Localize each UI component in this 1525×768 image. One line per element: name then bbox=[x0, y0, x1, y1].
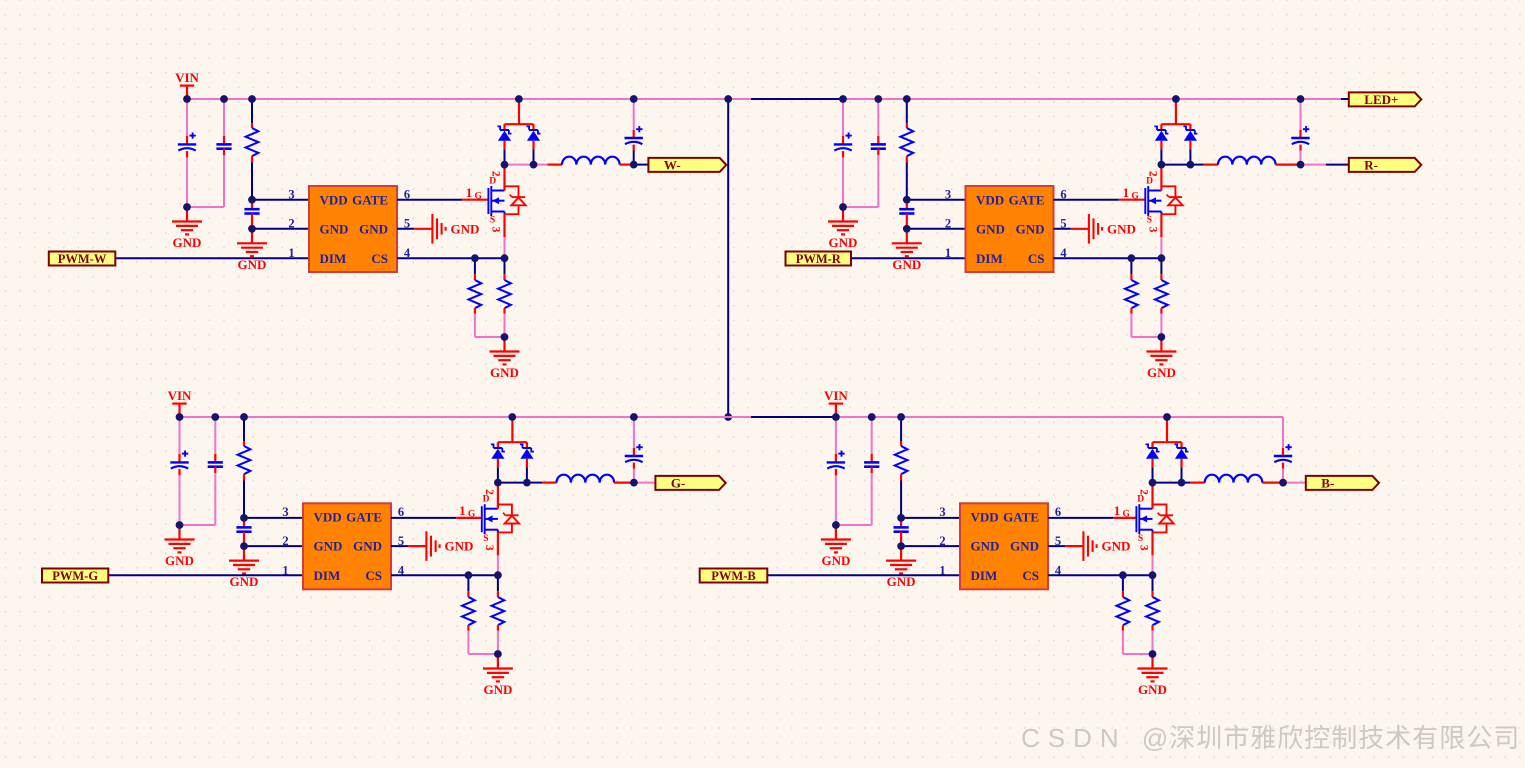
ground GND (B pin 5) bbox=[1083, 531, 1130, 561]
wire: QB source to CS node bbox=[1152, 555, 1154, 575]
wire: R power rail segment 1 bbox=[728, 98, 751, 100]
inductor LG bbox=[557, 475, 615, 483]
wire: RB1 pin stub top bbox=[900, 441, 902, 446]
wire: diode Gb anode to switch node bbox=[526, 459, 528, 468]
wire: pin 5 to ground (B) bbox=[1048, 545, 1065, 547]
wire: CG2 bottom L to ground join bbox=[180, 473, 216, 525]
electrolytic capacitor CW1 bbox=[178, 133, 196, 151]
junction: rail @VIN (B) bbox=[832, 413, 840, 421]
port LED+ bbox=[1349, 92, 1422, 107]
junction: connector at top rail bbox=[724, 95, 732, 103]
junction: sense ground node (B) bbox=[1149, 650, 1157, 658]
wire: inductor LR pin stub right bbox=[1276, 164, 1301, 166]
junction: sense ground node (W) bbox=[501, 333, 509, 341]
svg-text:S: S bbox=[1138, 534, 1143, 544]
svg-text:D: D bbox=[483, 495, 490, 505]
wire: RBs1 pin stub bottom bbox=[1122, 625, 1124, 631]
IC UW LED driver (VDD/GATE/GND/DIM/CS) bbox=[309, 186, 397, 272]
wire: inductor LB pin stub right bbox=[1262, 482, 1283, 484]
wire: RGs1 pin stub bottom bbox=[467, 625, 469, 631]
wire: pin 5 to ground (G) bbox=[391, 545, 408, 547]
port PWM-R bbox=[786, 252, 852, 267]
wire: output cap pin stub top (W) bbox=[633, 130, 635, 138]
junction: rail @diodes (W) bbox=[515, 95, 523, 103]
inductor LB bbox=[1205, 475, 1263, 483]
svg-text:1: 1 bbox=[282, 563, 288, 577]
svg-text:GND: GND bbox=[1101, 539, 1130, 554]
wire: VDD cap pin stub bottom bbox=[251, 214, 253, 229]
wire: RW1 pin stub bottom bbox=[251, 156, 253, 162]
wire: QR gate pin stub bbox=[1119, 199, 1146, 201]
wire: switch node to inductor stub (R) bbox=[1190, 164, 1203, 166]
junction: VDD node (B) bbox=[897, 514, 905, 522]
ground GND (R input caps) bbox=[828, 207, 858, 250]
wire: CB1 pin stub top bbox=[835, 454, 837, 462]
schottky diode DRa bbox=[1154, 126, 1168, 140]
svg-text:1: 1 bbox=[466, 185, 473, 200]
wire: VDD node to pin 3 (W) bbox=[252, 199, 309, 201]
junction: CS node right (W) bbox=[501, 254, 509, 262]
junction: GND pin node (B) bbox=[897, 542, 905, 550]
wire: RWs2 pin stub bottom bbox=[503, 308, 505, 314]
junction: rail @out (R) bbox=[1297, 95, 1305, 103]
wire: pin 6 GATE to QR (R) bbox=[1054, 199, 1119, 201]
wire: switch node bridge (B) bbox=[1153, 482, 1182, 484]
wire: CS to sense resistor RBs2 top bbox=[1152, 575, 1154, 591]
wire: R power rail segment 2 bbox=[751, 98, 843, 100]
transistor QG N-MOSFET body bbox=[482, 504, 498, 534]
svg-text:GND: GND bbox=[1010, 539, 1039, 554]
capacitor CB3 (VDD decoupling) bbox=[894, 527, 909, 531]
UW pin number labels bbox=[288, 188, 411, 261]
svg-text:2: 2 bbox=[282, 534, 288, 548]
wire: RR1 pin stub top bbox=[906, 123, 908, 128]
wire: PWM-B to pin 1 DIM (B) bbox=[767, 574, 960, 576]
svg-text:3: 3 bbox=[945, 188, 951, 202]
junction: rail @diodes (G) bbox=[508, 413, 516, 421]
wire: diode Ba anode to switch node bbox=[1151, 459, 1153, 468]
wire: CR1 pin stub bottom bbox=[842, 151, 844, 157]
junction: output node (W) bbox=[630, 161, 638, 169]
wire: VDD cap pin stub top bbox=[906, 200, 908, 210]
wire: VDD node to pin 3 (G) bbox=[244, 517, 303, 519]
svg-text:2: 2 bbox=[1138, 489, 1150, 495]
junction: VDD node (G) bbox=[240, 514, 248, 522]
svg-text:GATE: GATE bbox=[1009, 192, 1045, 207]
junction: rail @R1 (R) bbox=[903, 95, 911, 103]
wire: rail to input cap CR1 bbox=[842, 99, 844, 136]
wire: CB2 pin stub top bbox=[871, 454, 873, 462]
wire: diode Wb anode navy segment bbox=[533, 149, 535, 164]
wire: output cap pin stub top (R) bbox=[1299, 130, 1301, 138]
ground GND (R pin 5) bbox=[1089, 214, 1136, 244]
wire: rail to input cap CB1 bbox=[835, 417, 837, 454]
svg-text:2: 2 bbox=[288, 217, 294, 231]
wire: output cap pin stub top (G) bbox=[633, 448, 635, 456]
junction: VDD node (W) bbox=[248, 196, 256, 204]
wire: VDD node to pin 3 (R) bbox=[907, 199, 966, 201]
wire: output cap pin stub bottom (G) bbox=[633, 463, 635, 469]
svg-text:DIM: DIM bbox=[320, 251, 347, 266]
wire: CB2 pin stub bottom bbox=[871, 467, 873, 473]
svg-text:DIM: DIM bbox=[314, 568, 341, 583]
svg-text:GND: GND bbox=[1138, 682, 1167, 697]
wire: switch node bridge (W) bbox=[505, 164, 534, 166]
wire: rail to output cap (G) bbox=[633, 417, 635, 448]
wire: output node to port R- seg2 bbox=[1326, 164, 1349, 166]
wire: QW source red stub bbox=[503, 214, 505, 237]
junction: switch node right (R) bbox=[1187, 161, 1195, 169]
schottky diode DWa bbox=[498, 126, 512, 140]
svg-text:VDD: VDD bbox=[976, 192, 1004, 207]
svg-text:3: 3 bbox=[483, 545, 495, 551]
svg-text:2: 2 bbox=[483, 489, 495, 495]
wire: ground node to pin 2 (R) bbox=[907, 228, 966, 230]
wire: RGs2 pin stub top bbox=[497, 591, 499, 597]
wire: diode Rb anode to switch node bbox=[1189, 141, 1191, 150]
svg-text:VDD: VDD bbox=[971, 510, 999, 525]
ground GND (R pin 2) bbox=[892, 229, 922, 272]
junction: connector at bottom rail bbox=[724, 413, 732, 421]
wire: output cap pin stub top (B) bbox=[1282, 448, 1284, 456]
svg-text:1: 1 bbox=[939, 563, 945, 577]
VIN power port (W block) bbox=[175, 70, 199, 99]
wire: diode Ba anode navy segment bbox=[1152, 467, 1154, 482]
wire: sense right leg to ground node (G) bbox=[497, 631, 499, 654]
svg-text:1: 1 bbox=[1123, 185, 1130, 200]
ground GND (B input caps) bbox=[821, 525, 851, 568]
wire: switch node bridge (G) bbox=[498, 482, 527, 484]
svg-text:R-: R- bbox=[1364, 158, 1378, 173]
wire: CR2 bottom L to ground join bbox=[843, 155, 878, 207]
svg-text:6: 6 bbox=[1055, 505, 1061, 519]
UG pin number labels bbox=[282, 505, 405, 578]
junction: rail @R1 (W) bbox=[248, 95, 256, 103]
junction: input caps ground node (B) bbox=[832, 521, 840, 529]
schottky diode DGa bbox=[491, 444, 505, 458]
junction: switch node left (R) bbox=[1158, 161, 1166, 169]
QG pin labels bbox=[459, 489, 495, 551]
body diode of QW bbox=[505, 186, 526, 214]
junction: CS node left (R) bbox=[1128, 254, 1136, 262]
wire: pin 5 to ground (R) bbox=[1054, 228, 1071, 230]
svg-text:PWM-R: PWM-R bbox=[796, 252, 842, 266]
wire: pin 6 GATE to QW (W) bbox=[397, 199, 462, 201]
wire: pin 4 CS to sense resistors (B) bbox=[1048, 574, 1153, 576]
wire: CW1 pin stub top bbox=[186, 136, 188, 144]
svg-text:GND: GND bbox=[359, 221, 388, 236]
wire: diode Wb anode to switch node bbox=[532, 141, 534, 150]
transistor QW N-MOSFET body bbox=[488, 186, 504, 216]
port PWM-B bbox=[700, 569, 768, 584]
junction: input caps ground node (R) bbox=[839, 203, 847, 211]
wire: rail to output cap (R) bbox=[1300, 99, 1302, 130]
junction: rail @C2 (B) bbox=[868, 413, 876, 421]
wire: CG2 pin stub top bbox=[214, 454, 216, 462]
capacitor CR2 bbox=[871, 144, 886, 148]
UR pin number labels bbox=[945, 188, 1068, 261]
wire: VDD cap pin stub top bbox=[243, 518, 245, 528]
wire: RWs2 pin stub top bbox=[503, 274, 505, 280]
wire: CS to sense resistor RRs1 top bbox=[1130, 258, 1132, 274]
wire: RG1 pin stub top bbox=[243, 441, 245, 446]
wire: CB1 pin stub bottom bbox=[835, 469, 837, 475]
svg-text:GATE: GATE bbox=[1003, 510, 1039, 525]
schottky diode DBa bbox=[1146, 444, 1160, 458]
wire: vertical rail connector (top rail to bottom rail) bbox=[727, 99, 729, 417]
capacitor CB2 bbox=[864, 462, 879, 466]
QR pin labels bbox=[1123, 171, 1159, 233]
svg-text:GND: GND bbox=[444, 539, 473, 554]
wire: sense right leg to ground node (R) bbox=[1160, 314, 1162, 337]
port W- bbox=[648, 158, 726, 173]
schottky diode DGb bbox=[520, 444, 534, 458]
inductor LW bbox=[562, 157, 620, 165]
wire: output cap pin stub bottom (B) bbox=[1282, 463, 1284, 469]
wire: output cap to output node (B) bbox=[1282, 469, 1284, 483]
wire: diode Rb anode navy segment bbox=[1189, 149, 1191, 164]
wire: QW source to CS node bbox=[504, 237, 506, 258]
wire: freewheel diode feed from rail (W) bbox=[505, 99, 534, 130]
wire: diode Wa anode navy segment bbox=[504, 149, 506, 164]
wire: rail to resistor RG1 bbox=[243, 417, 245, 441]
ground GND (G pin 2) bbox=[229, 546, 259, 589]
electrolytic capacitor CRout bbox=[1291, 126, 1309, 144]
junction: CS node left (W) bbox=[471, 254, 479, 262]
junction: switch node right (G) bbox=[523, 479, 531, 487]
wire: output node to port G- seg1 bbox=[634, 482, 656, 484]
wire: RRs2 pin stub top bbox=[1160, 274, 1162, 280]
wire: diode Ga anode to switch node bbox=[497, 459, 499, 468]
junction: GND pin node (G) bbox=[240, 542, 248, 550]
wire: pin 5 ground stub (W) bbox=[414, 228, 432, 230]
svg-text:VDD: VDD bbox=[314, 510, 342, 525]
svg-text:G: G bbox=[468, 510, 476, 520]
svg-text:GND: GND bbox=[976, 221, 1005, 236]
wire: output node to port W- seg1 bbox=[634, 164, 649, 166]
svg-text:GND: GND bbox=[1107, 221, 1136, 236]
svg-text:GATE: GATE bbox=[352, 192, 388, 207]
wire: CS to sense resistor RRs2 top bbox=[1160, 258, 1162, 274]
wire: switch node to inductor stub (G) bbox=[527, 482, 542, 484]
wire: RGs2 pin stub bottom bbox=[497, 625, 499, 631]
port G- bbox=[655, 476, 725, 491]
svg-text:GND: GND bbox=[490, 365, 519, 380]
wire: rail to resistor RB1 bbox=[900, 417, 902, 441]
wire: pin 5 ground stub (G) bbox=[408, 545, 426, 547]
resistor RB1 (VDD feed) bbox=[895, 446, 908, 474]
svg-text:1: 1 bbox=[1114, 503, 1121, 518]
svg-text:3: 3 bbox=[1138, 545, 1150, 551]
svg-text:CS: CS bbox=[1022, 568, 1039, 583]
junction: output node (G) bbox=[630, 479, 638, 487]
body diode of QG bbox=[498, 505, 519, 533]
transistor QR N-MOSFET body bbox=[1145, 186, 1161, 216]
wire: PWM-G to pin 1 DIM (G) bbox=[108, 574, 303, 576]
svg-text:VDD: VDD bbox=[320, 192, 348, 207]
IC UB LED driver (VDD/GATE/GND/DIM/CS) bbox=[960, 503, 1048, 589]
wire: rail to output cap (W) bbox=[633, 99, 635, 130]
wire: CG1 bottom to ground join bbox=[179, 475, 181, 525]
junction: rail @VIN (G) bbox=[176, 413, 184, 421]
ground GND (W input caps) bbox=[172, 207, 202, 250]
svg-text:DIM: DIM bbox=[976, 251, 1003, 266]
wire: RR1 to VDD node bbox=[906, 163, 908, 200]
electrolytic capacitor CBout bbox=[1274, 444, 1292, 462]
wire: QB gate pin stub bbox=[1113, 517, 1136, 519]
wire: RWs1 pin stub top bbox=[474, 274, 476, 280]
svg-text:G: G bbox=[1131, 191, 1139, 201]
wire: inductor LG pin stub left bbox=[542, 482, 556, 484]
capacitor CG3 (VDD decoupling) bbox=[236, 527, 251, 531]
wire: diode Ra anode navy segment bbox=[1160, 149, 1162, 164]
wire: CS to sense resistor RBs1 top bbox=[1122, 575, 1124, 591]
wire: PWM-R to pin 1 DIM (R) bbox=[851, 257, 966, 259]
electrolytic capacitor CG1 bbox=[170, 451, 188, 469]
electrolytic capacitor CGout bbox=[625, 444, 643, 462]
wire: rail to input cap CW1 bbox=[186, 99, 188, 136]
junction: switch node right (W) bbox=[530, 161, 538, 169]
wire: diode Ra anode to switch node bbox=[1160, 141, 1162, 150]
ground GND (G pin 5) bbox=[426, 531, 473, 561]
wire: rail to input cap CG1 bbox=[179, 417, 181, 454]
wire: CR2 pin stub bottom bbox=[877, 149, 879, 155]
svg-text:S: S bbox=[483, 534, 488, 544]
wire: RWs1 pin stub bottom bbox=[474, 308, 476, 314]
wire: VDD cap pin stub top bbox=[251, 200, 253, 210]
wire: CS to sense resistor RGs1 top bbox=[467, 575, 469, 591]
svg-text:PWM-B: PWM-B bbox=[711, 569, 755, 583]
wire: rail to output cap (B) bbox=[1282, 417, 1284, 448]
port R- bbox=[1349, 158, 1422, 173]
svg-text:PWM-G: PWM-G bbox=[52, 569, 98, 583]
wire: B power rail segment 1 bbox=[836, 416, 1283, 418]
wire: CW1 pin stub bottom bbox=[186, 151, 188, 157]
junction: rail @VIN (W) bbox=[183, 95, 191, 103]
wire: QG source to CS node bbox=[497, 555, 499, 575]
sense resistor RRs1 bbox=[1125, 280, 1138, 308]
wire: CW2 bottom L to ground join bbox=[187, 155, 224, 207]
svg-text:S: S bbox=[1147, 216, 1152, 226]
wire: inductor LW pin stub right bbox=[620, 164, 634, 166]
svg-text:G: G bbox=[1123, 510, 1131, 520]
wire: ground node to pin 2 (W) bbox=[252, 228, 309, 230]
wire: CW2 pin stub top bbox=[223, 136, 225, 144]
sense resistor RBs2 bbox=[1146, 597, 1159, 625]
wire: QW gate pin stub bbox=[462, 199, 488, 201]
wire: QG drain to switch node bbox=[497, 483, 499, 509]
svg-text:3: 3 bbox=[288, 188, 294, 202]
capacitor CW3 (VDD decoupling) bbox=[244, 209, 259, 213]
svg-text:VIN: VIN bbox=[168, 388, 192, 403]
wire: W power rail segment 1 bbox=[187, 98, 728, 100]
svg-text:GND: GND bbox=[314, 539, 343, 554]
svg-text:CS: CS bbox=[365, 568, 382, 583]
junction: output node (R) bbox=[1297, 161, 1305, 169]
junction: CS node left (G) bbox=[465, 571, 473, 579]
body diode of QB bbox=[1153, 505, 1174, 533]
sense resistor RWs1 bbox=[469, 280, 482, 308]
svg-text:6: 6 bbox=[398, 505, 404, 519]
wire: QG source red stub bbox=[497, 532, 499, 555]
wire: sense left leg to ground node (G) bbox=[468, 631, 498, 654]
wire: output cap to output node (G) bbox=[633, 469, 635, 483]
wire: CS to sense resistor RGs2 top bbox=[497, 575, 499, 591]
wire: diode Ga anode navy segment bbox=[497, 467, 499, 482]
wire: RBs1 pin stub top bbox=[1122, 591, 1124, 597]
wire: switch node to inductor stub (W) bbox=[534, 164, 548, 166]
wire: sense left leg to ground node (R) bbox=[1131, 314, 1161, 337]
svg-text:3: 3 bbox=[1146, 227, 1158, 233]
svg-text:W-: W- bbox=[664, 158, 681, 173]
wire: CS to sense resistor RWs1 top bbox=[474, 258, 476, 274]
junction: output node (B) bbox=[1279, 479, 1287, 487]
wire: switch node bridge (R) bbox=[1161, 164, 1190, 166]
wire: inductor LR pin stub left bbox=[1204, 164, 1218, 166]
wire: VDD cap pin stub top bbox=[900, 518, 902, 528]
wire: switch node to inductor stub (B) bbox=[1182, 482, 1191, 484]
svg-text:GND: GND bbox=[887, 574, 916, 589]
wire: RRs1 pin stub bottom bbox=[1130, 308, 1132, 314]
wire: R power rail segment 3 bbox=[843, 98, 1341, 100]
wire: CW2 pin stub bottom bbox=[223, 149, 225, 155]
wire: CG1 pin stub bottom bbox=[178, 469, 180, 475]
schottky diode DBb bbox=[1175, 444, 1189, 458]
wire: VDD cap pin stub bottom bbox=[900, 532, 902, 546]
port PWM-G bbox=[42, 569, 108, 584]
wire: pin 6 GATE to QG (G) bbox=[391, 517, 456, 519]
ground GND (B pin 2) bbox=[886, 546, 916, 589]
wire: RBs2 pin stub bottom bbox=[1151, 625, 1153, 631]
svg-text:LED+: LED+ bbox=[1364, 92, 1398, 107]
junction: CS node right (R) bbox=[1158, 254, 1166, 262]
QB pin labels bbox=[1114, 489, 1150, 551]
wire: pin 5 ground stub (B) bbox=[1065, 545, 1083, 547]
QW pin labels bbox=[466, 171, 502, 233]
wire: sense left leg to ground node (W) bbox=[475, 314, 505, 337]
wire: CR1 pin stub top bbox=[842, 136, 844, 144]
wire: CR2 pin stub top bbox=[877, 136, 879, 144]
svg-text:2: 2 bbox=[490, 171, 502, 177]
wire: ground node to pin 2 (B) bbox=[901, 545, 960, 547]
wire: output cap to output node (R) bbox=[1300, 151, 1302, 165]
junction: input caps ground node (W) bbox=[183, 203, 191, 211]
body diode of QR bbox=[1161, 186, 1182, 214]
sense resistor RBs1 bbox=[1117, 597, 1130, 625]
svg-text:GND: GND bbox=[320, 221, 349, 236]
ground GND (G sense) bbox=[483, 654, 513, 697]
ground GND (W pin 2) bbox=[237, 229, 267, 272]
svg-text:3: 3 bbox=[282, 505, 288, 519]
wire: CR1 bottom to ground join bbox=[842, 157, 844, 207]
ground GND (B sense) bbox=[1138, 654, 1168, 697]
schottky diode DWb bbox=[527, 126, 541, 140]
svg-text:VIN: VIN bbox=[175, 70, 199, 85]
svg-text:CS: CS bbox=[371, 251, 388, 266]
wire: VDD node to pin 3 (B) bbox=[901, 517, 960, 519]
wire: freewheel diode feed from rail (B) bbox=[1153, 417, 1182, 448]
svg-text:D: D bbox=[1146, 176, 1153, 186]
wire: rail to input cap CG2 bbox=[214, 417, 216, 454]
wire: inductor LW pin stub left bbox=[548, 164, 562, 166]
sense resistor RGs2 bbox=[492, 597, 505, 625]
junction: GND pin node (R) bbox=[903, 225, 911, 233]
schottky diode DRb bbox=[1183, 126, 1197, 140]
wire: CW1 bottom to ground join bbox=[186, 157, 188, 207]
junction: input caps ground node (G) bbox=[176, 521, 184, 529]
svg-text:D: D bbox=[489, 176, 496, 186]
transistor QB N-MOSFET body bbox=[1136, 504, 1152, 534]
